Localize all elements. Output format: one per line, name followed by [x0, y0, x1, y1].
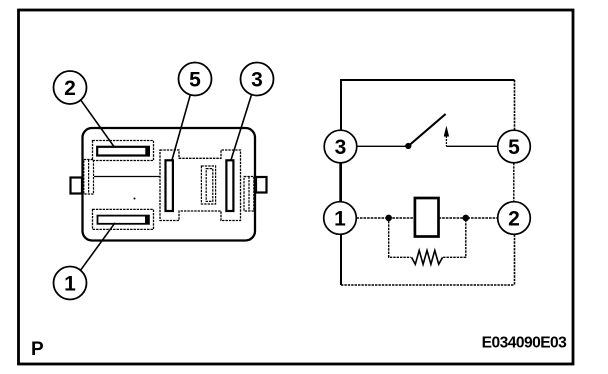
callout circle 3 [241, 63, 274, 96]
callout circle 1 [54, 267, 87, 300]
wire terminal 5 to terminal 2 [513, 163, 515, 202]
resistor [412, 250, 443, 264]
svg-text:1: 1 [334, 208, 346, 231]
relay connector body [83, 128, 256, 241]
wire bottom of loop [341, 284, 515, 286]
svg-text:5: 5 [189, 69, 201, 92]
svg-text:P: P [31, 339, 44, 360]
wire right bottom (from terminal 2) [514, 235, 516, 286]
right side slot strip [244, 177, 254, 212]
callout circle 5 [179, 63, 212, 96]
svg-text:3: 3 [251, 69, 263, 92]
terminal circle 2 [498, 202, 531, 235]
wire coil to terminal 2 [439, 217, 498, 219]
leader line to pin 3 [231, 95, 252, 160]
svg-text:1: 1 [64, 273, 76, 296]
left side slot strip [84, 160, 94, 195]
pin 5 slot [166, 160, 173, 211]
pin 2 housing [93, 141, 154, 161]
wire right top (to terminal 5) [514, 80, 516, 131]
left mounting tab [71, 178, 83, 194]
junction node right [463, 215, 470, 222]
wire switch to terminal 5 [446, 145, 498, 147]
speck [134, 198, 136, 200]
center blank slot [201, 166, 215, 204]
wire terminal 1 to coil [356, 217, 415, 219]
pin 1 housing [93, 209, 154, 229]
junction node left [385, 215, 392, 222]
leader line to pin 5 [172, 95, 190, 160]
terminal circle 1 [324, 202, 357, 235]
right mounting tab [256, 177, 267, 193]
wire terminal 3 to switch contact [357, 145, 406, 147]
svg-text:E034090E03: E034090E03 [482, 334, 568, 351]
terminal circle 3 [324, 130, 357, 163]
leader line to pin 1 [81, 223, 115, 270]
relay coil [415, 198, 439, 237]
pin 2 slot [97, 147, 149, 156]
center housings for pins 5 and 3 [160, 150, 241, 221]
leader line to pin 2 [81, 100, 115, 148]
switch arrow contact [444, 126, 449, 147]
callout circle 2 [54, 71, 87, 104]
terminal circle 5 [498, 130, 531, 163]
resistor branch wires [389, 221, 466, 257]
switch blade [407, 114, 445, 147]
svg-text:2: 2 [508, 208, 520, 231]
svg-text:2: 2 [64, 77, 76, 100]
svg-text:5: 5 [508, 136, 520, 159]
switch contact node [405, 143, 411, 149]
pin 1 slot [98, 216, 149, 224]
pin 3 slot [226, 160, 233, 211]
wire top of loop [341, 80, 515, 285]
wire terminal 3 to terminal 1 [339, 163, 341, 202]
divider line [94, 176, 160, 178]
svg-text:3: 3 [335, 136, 347, 159]
